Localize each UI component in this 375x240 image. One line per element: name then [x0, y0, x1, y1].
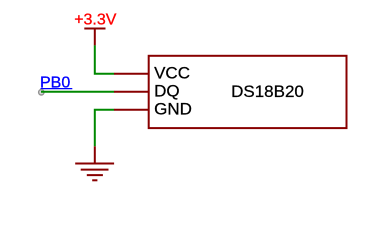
pin DQ (pin 2) [114, 91, 149, 93]
svg-text:VCC: VCC [154, 63, 190, 82]
wire from GND pin to ground [95, 110, 114, 147]
net label PB0 [40, 74, 72, 91]
wire from PB0 node to DQ pin [41, 91, 114, 93]
wire from +3.3V to VCC pin [95, 45, 114, 73]
pin VCC (pin 1) [114, 73, 149, 75]
ground symbol [75, 146, 114, 180]
svg-text:GND: GND [154, 99, 192, 118]
svg-text:DS18B20: DS18B20 [231, 82, 304, 101]
svg-text:DQ: DQ [154, 81, 180, 100]
node PB0 junction dot [39, 90, 44, 95]
power flag +3.3V bar symbol [84, 29, 105, 46]
svg-text:+3.3V: +3.3V [74, 11, 117, 28]
pin GND (pin 3) [114, 109, 149, 111]
component U1 DS18B20 body [149, 56, 347, 128]
